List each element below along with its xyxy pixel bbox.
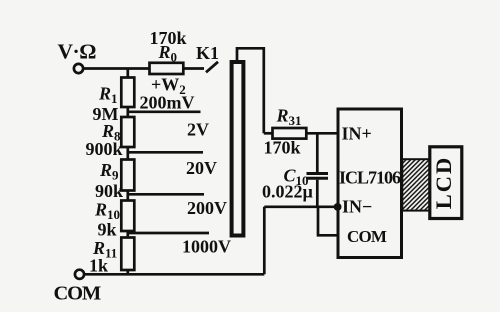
label 200V (187, 198, 227, 218)
label 170k for R31 (264, 138, 301, 158)
wire 2V range tap (128, 151, 203, 154)
resistor R8 (121, 117, 134, 147)
node junction at IN- (334, 203, 342, 211)
svg-text:IN−: IN− (342, 197, 372, 217)
label 900k (86, 139, 123, 159)
svg-text:COM: COM (347, 227, 387, 246)
terminal COM jack (75, 270, 84, 279)
svg-text:COM: COM (54, 283, 101, 305)
wire 20V range tap (128, 193, 204, 196)
terminal V·Ω input jack (74, 64, 83, 73)
svg-text:LCD: LCD (431, 156, 456, 210)
svg-text:200V: 200V (187, 198, 227, 218)
label +W2 (151, 75, 186, 98)
svg-text:90k: 90k (95, 181, 123, 201)
label V·Ω (58, 40, 97, 64)
resistor R10 (121, 201, 134, 232)
label C10 (284, 166, 309, 189)
LCD display module (430, 147, 462, 219)
wire COM link down to rail (263, 207, 266, 274)
label R10 (94, 200, 120, 223)
wire R0 to switch K1 (183, 67, 204, 70)
wire selector to R31 (over the top) (237, 48, 264, 133)
svg-text:1k: 1k (89, 256, 108, 276)
wire COM rail (84, 273, 264, 276)
svg-text:0.022µ: 0.022µ (262, 182, 314, 202)
label 200mV (140, 93, 195, 113)
svg-text:20V: 20V (186, 158, 217, 178)
range selector bar (232, 62, 244, 236)
wire into R31 (264, 132, 273, 135)
label 90k (95, 181, 123, 201)
resistor R31 (273, 128, 307, 139)
svg-text:200mV: 200mV (140, 93, 195, 113)
wire 200V range tap (128, 232, 209, 235)
label LCD (431, 156, 456, 210)
wire COM pin to IN- line (318, 207, 338, 236)
label COM (input jack) (54, 283, 101, 305)
label K1 (196, 43, 219, 63)
label pin IN- (342, 197, 372, 217)
svg-text:9k: 9k (98, 220, 117, 240)
resistor R1 (121, 78, 134, 108)
wire resistor-chain vertical bus (126, 69, 129, 275)
wire IN- line (264, 205, 338, 208)
svg-text:IN+: IN+ (342, 124, 372, 144)
connector hatched block between ICL7106 and LCD (402, 159, 430, 210)
resistor R11 (121, 238, 134, 271)
label pin COM (347, 227, 387, 246)
label 1000V (182, 237, 231, 257)
resistor R0 (150, 63, 184, 74)
label pin IN+ (342, 124, 372, 144)
svg-text:170k: 170k (264, 138, 301, 158)
label R11 (92, 238, 117, 261)
svg-text:ICL7106: ICL7106 (339, 168, 401, 188)
label R9 (99, 160, 119, 183)
label 20V (186, 158, 217, 178)
svg-text:900k: 900k (86, 139, 123, 159)
label 9k (98, 220, 117, 240)
label R1 (98, 84, 118, 107)
svg-text:1000V: 1000V (182, 237, 231, 257)
label 170k for R0 (150, 28, 187, 48)
svg-text:V·Ω: V·Ω (58, 40, 97, 64)
capacitor C10 (307, 133, 329, 207)
label R8 (101, 121, 121, 144)
resistor R9 (121, 160, 134, 191)
wire R31 to IN+ (306, 132, 338, 135)
wire top input line (83, 67, 149, 70)
label 9M (93, 104, 119, 124)
label 0.022µ (262, 182, 314, 202)
label R0 (158, 42, 178, 65)
op-amp U1 ICL7106 converter box (338, 109, 402, 258)
wire 200mV range tap (128, 110, 201, 113)
svg-text:K1: K1 (196, 43, 219, 63)
label 2V (187, 120, 209, 140)
label R31 (276, 106, 302, 129)
label 1k (89, 256, 108, 276)
label ICL7106 (339, 168, 401, 188)
svg-text:2V: 2V (187, 120, 209, 140)
switch K1 blade (206, 62, 218, 73)
